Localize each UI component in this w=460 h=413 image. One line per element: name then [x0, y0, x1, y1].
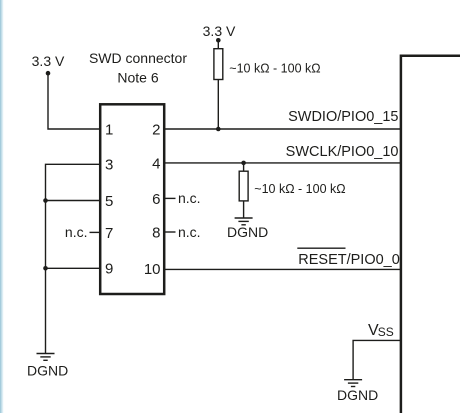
wire pin 3 to ground bus — [46, 164, 101, 200]
junction at pin 5 bus — [43, 198, 48, 203]
svg-text:n.c.: n.c. — [178, 224, 201, 240]
svg-text:9: 9 — [105, 261, 113, 278]
svg-text:1: 1 — [105, 121, 113, 138]
svg-text:2: 2 — [152, 121, 160, 138]
ground DGND (VSS) — [344, 380, 362, 387]
svg-text:DGND: DGND — [337, 387, 378, 403]
svg-text:SWD connector: SWD connector — [89, 50, 187, 66]
svg-text:5: 5 — [105, 193, 113, 210]
chip outline (right) — [401, 56, 460, 413]
svg-text:SWDIO/PIO0_15: SWDIO/PIO0_15 — [288, 109, 398, 125]
wire R2 to ground — [243, 201, 245, 218]
svg-text:SWCLK/PIO0_10: SWCLK/PIO0_10 — [286, 144, 399, 160]
wire pin 5 to ground bus — [46, 200, 101, 202]
wire VSS to ground — [353, 340, 400, 379]
svg-text:3: 3 — [105, 157, 113, 174]
pin 6 n.c. stub — [165, 197, 176, 199]
ground DGND (left) — [37, 354, 55, 361]
overline of RESET — [297, 247, 345, 249]
svg-text:Note 6: Note 6 — [117, 70, 158, 86]
svg-text:6: 6 — [152, 191, 160, 208]
junction SWCLK / R2 — [241, 161, 246, 166]
power rail 3.3 V (top) — [203, 23, 236, 43]
svg-text:3.3 V: 3.3 V — [203, 23, 236, 39]
svg-text:~10 kΩ - 100 kΩ: ~10 kΩ - 100 kΩ — [229, 61, 320, 75]
svg-text:4: 4 — [152, 155, 160, 172]
svg-text:~10 kΩ - 100 kΩ: ~10 kΩ - 100 kΩ — [254, 182, 345, 196]
svg-text:10: 10 — [144, 261, 161, 278]
SWD connector J1 — [100, 104, 164, 294]
wire ground bus down to DGND — [45, 268, 47, 353]
svg-text:DGND: DGND — [27, 362, 68, 378]
junction at pin 9 bus — [43, 266, 48, 271]
wire SWDIO net pin 2 to chip — [165, 128, 401, 130]
svg-text:3.3 V: 3.3 V — [32, 53, 65, 69]
wire R1 to SWDIO net — [217, 80, 219, 130]
pin 7 n.c. stub — [90, 231, 101, 233]
svg-text:SS: SS — [378, 325, 394, 339]
ground DGND (below R2) — [235, 218, 253, 225]
wire RESET net pin 10 to chip — [165, 268, 401, 270]
label pin VSS — [368, 322, 394, 339]
wire 3.3V to resistor R1 — [217, 40, 219, 48]
power rail 3.3 V (left) — [32, 53, 65, 76]
junction SWDIO / R1 — [216, 127, 221, 132]
wire SWCLK net pin 4 to chip — [165, 162, 401, 164]
resistor R2 pull-down — [239, 171, 248, 201]
svg-text:7: 7 — [105, 225, 113, 242]
wire pin 9 to ground bus — [46, 267, 101, 269]
wire SWCLK to resistor R2 — [243, 163, 245, 171]
svg-text:n.c.: n.c. — [65, 224, 88, 240]
wire ground bus pin5 to pin9 — [45, 201, 47, 269]
svg-text:n.c.: n.c. — [178, 190, 201, 206]
svg-text:RESET/PIO0_0: RESET/PIO0_0 — [298, 252, 400, 268]
svg-text:8: 8 — [152, 224, 160, 241]
pin 8 n.c. stub — [165, 231, 176, 233]
svg-text:DGND: DGND — [227, 224, 268, 240]
resistor R1 pull-up — [214, 49, 223, 80]
wire 3.3V rail to pin 1 — [48, 73, 100, 129]
